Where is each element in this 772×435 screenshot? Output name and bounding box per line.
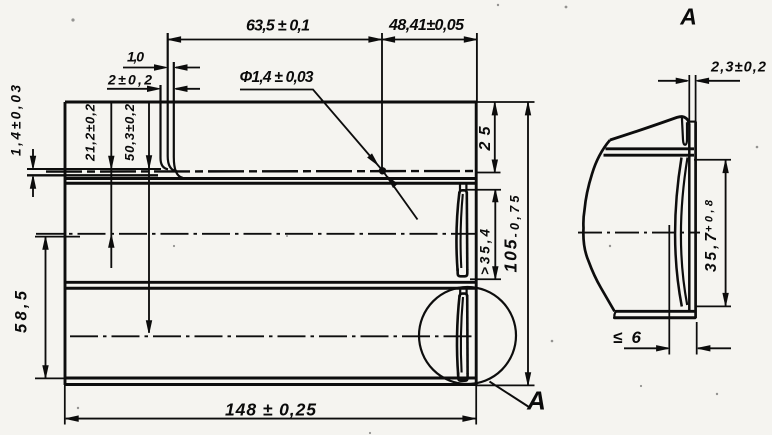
view A blade line 1: [675, 158, 682, 307]
corner vertical a: [161, 85, 169, 169]
slot 1 left wall inner: [461, 194, 463, 268]
middle band line 1: [65, 281, 476, 284]
dim 35,7 line: [725, 160, 727, 306]
svg-text:148 ± 0,25: 148 ± 0,25: [225, 400, 316, 420]
main view: bottom edge line 1: [65, 377, 477, 380]
dim 50,3 line: [148, 103, 150, 333]
right edge top extension: [476, 33, 478, 102]
dim 2±0,2 arrows: [107, 88, 149, 90]
svg-text:48,41±0,05: 48,41±0,05: [388, 17, 465, 34]
view A notch: [682, 118, 687, 145]
ext 25 bottom: [477, 172, 501, 174]
svg-text:≤ 6: ≤ 6: [613, 328, 642, 347]
svg-text:25: 25: [477, 125, 494, 151]
slot 1 neck: [460, 184, 466, 191]
dim 105 line: [527, 102, 529, 385]
slot 2 bottom cap: [458, 373, 467, 381]
view A bottom bar left cap: [614, 311, 616, 318]
view A band line 2: [604, 154, 695, 157]
main view: bottom edge line 2: [64, 383, 478, 386]
view A bottom bar top: [616, 310, 695, 313]
svg-text:2±0,2: 2±0,2: [107, 72, 152, 88]
slot 2 top cap: [460, 294, 468, 297]
slot 1 top cap: [459, 190, 467, 194]
svg-text:Φ1,4 ± 0,03: Φ1,4 ± 0,03: [240, 69, 314, 86]
middle band line 2: [65, 287, 476, 290]
slot 1 right wall: [465, 192, 468, 270]
ext top right (25/105): [477, 101, 535, 103]
dim 148 line: [66, 418, 476, 420]
svg-text:63,5 ± 0,1: 63,5 ± 0,1: [246, 18, 310, 35]
view A center line: [578, 232, 700, 234]
fold solid line 2: [65, 182, 476, 185]
view A bottom bar bottom: [615, 316, 696, 319]
ext 35,7 bottom: [695, 305, 731, 307]
slot 2 left wall outer: [457, 295, 460, 376]
dim <=6 ext lines: [669, 225, 696, 355]
svg-text:2,3±0,2: 2,3±0,2: [710, 60, 766, 76]
view A face top connector: [689, 121, 696, 123]
svg-text:58,5: 58,5: [13, 290, 31, 333]
ext slot bottom: [470, 278, 501, 280]
svg-text:50,3±0,2: 50,3±0,2: [122, 103, 137, 161]
hole extension vertical: [381, 33, 383, 171]
dim 25 line: [494, 102, 496, 172]
dim >35,4 line: [494, 189, 496, 279]
center line 2 (dash-dot): [70, 335, 476, 337]
ext slot top: [467, 189, 501, 191]
view A blade line 2: [681, 158, 688, 306]
detail circle A: [419, 287, 516, 384]
dim 1,4 arrows (left tab): [32, 149, 34, 168]
view A left broken edge: [583, 140, 614, 311]
center line 1 (dash-dot): [36, 233, 476, 235]
svg-text:35,7: 35,7: [703, 232, 720, 272]
ext 148 left: [64, 386, 66, 425]
dim 2,3 ext lines: [689, 75, 695, 124]
svg-text:1,4±0,03: 1,4±0,03: [9, 85, 24, 156]
ext 58,5 top: [35, 236, 80, 238]
slot 1 left wall outer: [456, 192, 459, 271]
main view: left edge: [64, 102, 67, 385]
main view: right edge: [475, 102, 478, 385]
svg-text:-0,75: -0,75: [508, 194, 522, 237]
view A band line 1: [606, 147, 695, 150]
svg-text:+0,8: +0,8: [704, 199, 716, 232]
slot 1 bottom cap: [458, 269, 468, 277]
leader to label A: [490, 382, 531, 409]
dim 1,0 arrows: [123, 67, 156, 69]
ext 105 bottom: [477, 384, 535, 386]
ext 58,5 bottom: [35, 377, 66, 379]
dim 21,2 line: [110, 103, 112, 268]
left tab bottom line: [27, 174, 158, 176]
svg-text:105: 105: [501, 239, 521, 272]
svg-text:21,2±0,2: 21,2±0,2: [83, 103, 98, 162]
view A face line 2: [694, 122, 697, 319]
svg-text:>35,4: >35,4: [478, 229, 493, 275]
slot 2 right wall: [466, 295, 469, 374]
dim <=6 arrows: [624, 347, 668, 349]
svg-text:1,0: 1,0: [127, 49, 144, 65]
view A top edge: [610, 117, 689, 140]
slot 2 left wall inner: [461, 297, 463, 373]
left tab top line: [27, 168, 161, 170]
corner vertical c: [174, 62, 183, 178]
fold solid line 1: [65, 177, 476, 180]
svg-text:A: A: [679, 4, 697, 30]
dim 2,3 arrows: [658, 80, 687, 82]
slot 2 neck: [460, 290, 466, 296]
dim 58,5 line: [45, 237, 47, 379]
ext 35,7 top: [694, 159, 731, 161]
leader of hole dia: [240, 90, 418, 220]
svg-text:A: A: [526, 386, 546, 416]
corner vertical b (63,5 extension): [168, 33, 177, 171]
view A face line 1: [688, 124, 691, 312]
main view: top edge: [65, 101, 477, 104]
dim 63,5 line: [168, 39, 382, 41]
fold dashed line: [46, 170, 476, 173]
ext 148 right: [475, 386, 477, 425]
dim 48,41 line: [382, 39, 477, 41]
hole dot: [379, 167, 386, 174]
